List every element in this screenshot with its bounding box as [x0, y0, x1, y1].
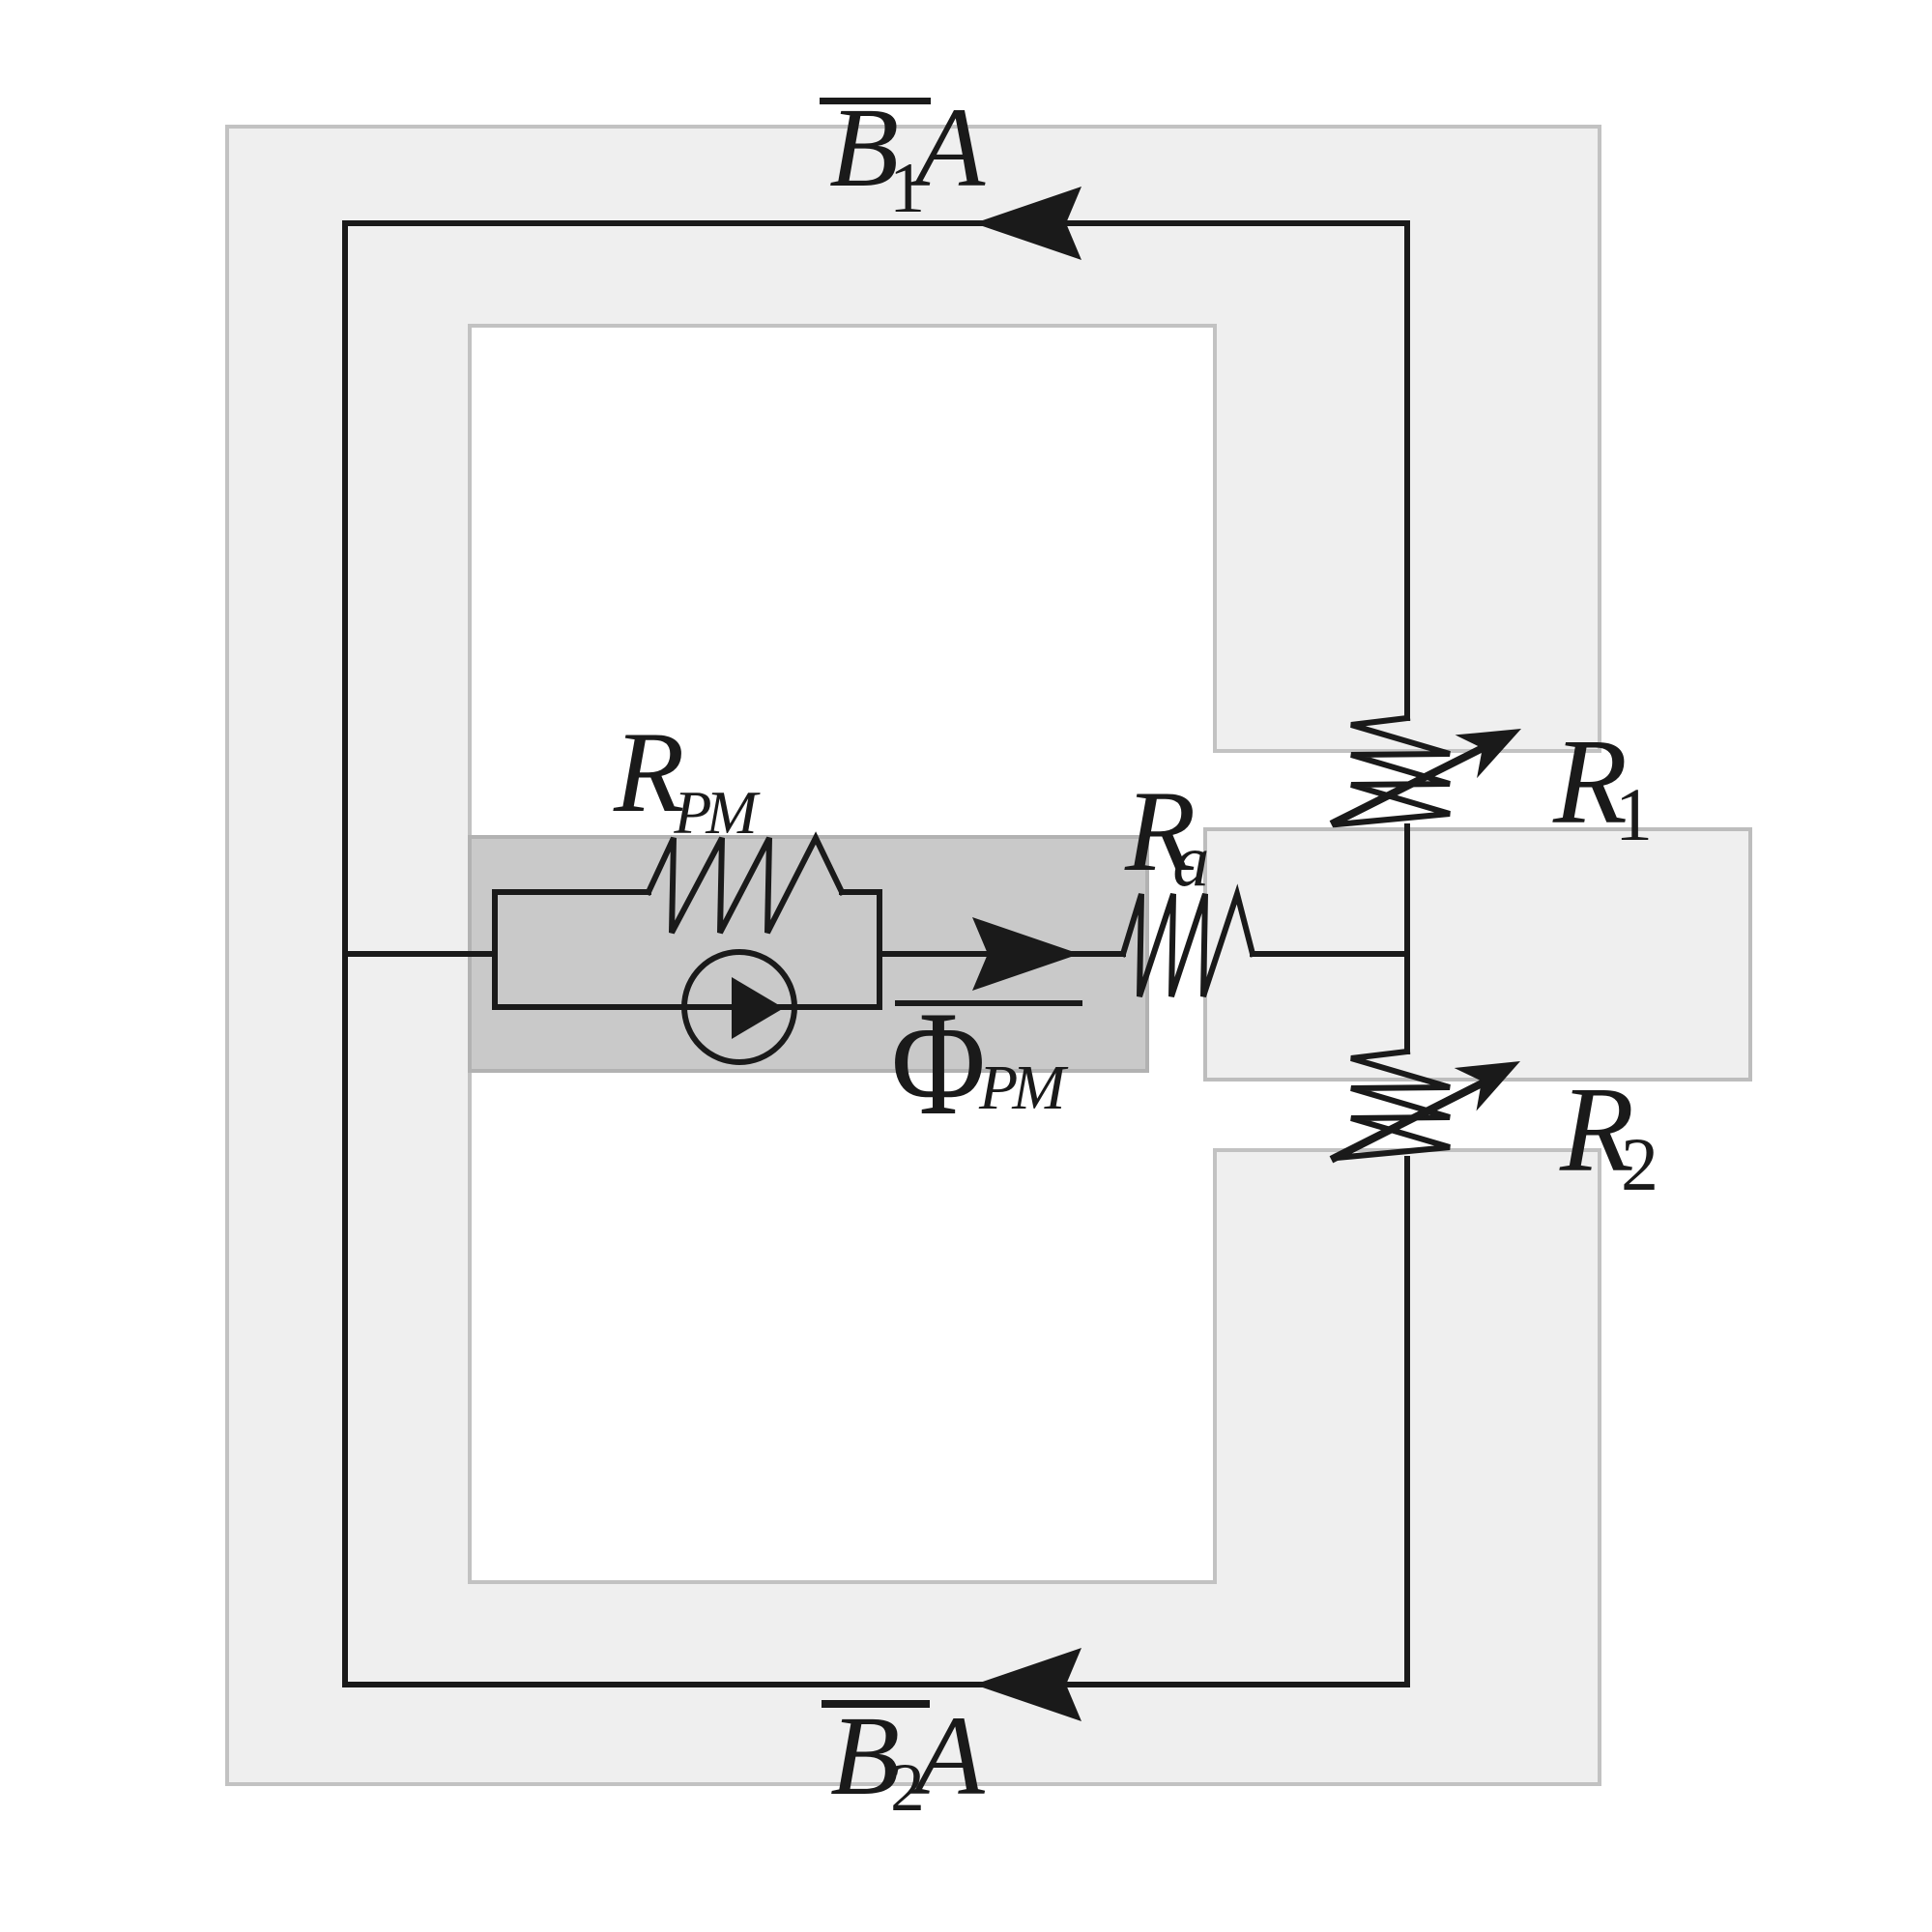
svg-text:R1: R1 — [1552, 715, 1653, 856]
svg-text:R2: R2 — [1559, 1063, 1658, 1206]
svg-text:Φ: Φ — [891, 980, 986, 1146]
svg-text:RPM: RPM — [613, 707, 761, 847]
svg-text:B1A: B1A — [829, 84, 986, 228]
svg-text:PM: PM — [978, 1053, 1069, 1123]
svg-text:Ra: Ra — [1124, 766, 1209, 902]
